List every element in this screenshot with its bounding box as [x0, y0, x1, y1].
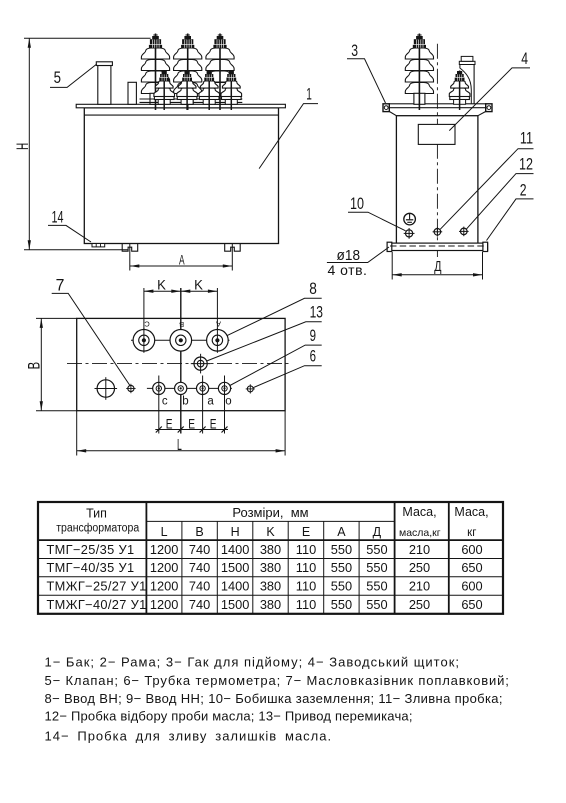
- drain plug (item 14): [92, 244, 105, 247]
- leader 8: [227, 298, 322, 335]
- tank top weld seam: [84, 114, 278, 116]
- dimension A extension lines: [129, 243, 131, 271]
- valve cap: [96, 62, 112, 66]
- svg-text:1400: 1400: [221, 542, 249, 557]
- svg-text:1500: 1500: [221, 597, 249, 612]
- dimension K line right: [181, 290, 218, 292]
- svg-text:5− Клапан; 6− Трубка термом: 5− Клапан; 6− Трубка термометра; 7− Масл…: [45, 673, 510, 688]
- tank (item 1 body): [84, 108, 278, 244]
- svg-text:650: 650: [461, 597, 482, 612]
- leader diameter note: [327, 247, 389, 263]
- svg-text:11: 11: [520, 128, 533, 147]
- dimension H extension line top: [24, 37, 151, 39]
- svg-text:8− Ввод ВН; 9− Ввод НН; 10: 8− Ввод ВН; 9− Ввод НН; 10− Бобишка зазе…: [45, 691, 503, 706]
- svg-text:14− Пробка для зливу залишків: 14− Пробка для зливу залишків масла.: [45, 729, 333, 744]
- svg-text:H: H: [231, 525, 240, 539]
- oil pipe flange: [459, 61, 475, 64]
- svg-text:10: 10: [350, 194, 364, 213]
- K extension line phase B (long): [180, 288, 182, 434]
- grounding earth symbol: [404, 213, 416, 225]
- leader 11: [440, 149, 533, 230]
- leader 14: [48, 225, 91, 242]
- svg-text:ТМЖГ−25/27 У1: ТМЖГ−25/27 У1: [47, 579, 147, 594]
- svg-text:550: 550: [331, 542, 352, 557]
- lid collar right slant: [478, 112, 486, 116]
- lid (side): [389, 104, 485, 108]
- factory plate (item 4): [418, 124, 455, 144]
- svg-text:550: 550: [331, 560, 352, 575]
- leader 5: [50, 64, 97, 87]
- dimension B line: [40, 318, 42, 410]
- svg-text:550: 550: [366, 560, 387, 575]
- svg-text:110: 110: [296, 560, 316, 575]
- svg-text:А: А: [216, 320, 221, 329]
- svg-text:600: 600: [461, 579, 482, 594]
- tank side wall: [396, 116, 478, 244]
- centerline (dash-dot): [67, 363, 291, 365]
- table outer border: [38, 502, 503, 614]
- HV bushing (side, item 8): [405, 34, 433, 111]
- frame hidden dashed line: [390, 245, 485, 247]
- svg-text:740: 740: [189, 579, 210, 594]
- dimension L line: [77, 450, 285, 452]
- LV circles crosshair horizontal: [147, 387, 232, 389]
- svg-text:B: B: [25, 362, 44, 370]
- leader 3: [347, 59, 386, 103]
- svg-text:Д: Д: [434, 258, 441, 275]
- leader 1: [259, 104, 318, 169]
- type column separator: [145, 502, 147, 614]
- svg-text:1200: 1200: [150, 542, 178, 557]
- dimension B extension lines: [36, 317, 77, 319]
- svg-text:250: 250: [409, 560, 430, 575]
- lifting hook left (item 3): [383, 104, 389, 112]
- LV bushing (side, item 9): [449, 71, 470, 111]
- svg-text:2: 2: [520, 181, 527, 200]
- svg-text:трансформатора: трансформатора: [56, 522, 140, 534]
- data row 4: [47, 597, 483, 612]
- svg-text:B: B: [195, 525, 203, 539]
- dimension L extension lines: [76, 411, 78, 456]
- svg-text:13: 13: [310, 303, 323, 322]
- svg-text:14: 14: [52, 207, 64, 226]
- E slash ticks: [156, 427, 162, 433]
- svg-text:А: А: [337, 525, 346, 539]
- dimension D line: [392, 274, 482, 276]
- lifting hook right: [486, 104, 492, 112]
- K extension line phase C: [143, 288, 145, 330]
- svg-text:380: 380: [260, 560, 281, 575]
- data row 2: [47, 560, 483, 575]
- svg-text:c: c: [162, 396, 168, 408]
- svg-text:масла,кг: масла,кг: [399, 527, 441, 539]
- leader 13: [207, 322, 322, 361]
- thermometer tube plan (item 6 target): [246, 384, 255, 393]
- svg-text:550: 550: [366, 579, 387, 594]
- svg-text:550: 550: [366, 542, 387, 557]
- centerline (dash-dot): [436, 44, 438, 257]
- leader 12: [466, 174, 533, 230]
- HV circles crosshair horizontal: [131, 339, 230, 341]
- data row 3: [47, 579, 483, 594]
- svg-text:кг: кг: [467, 527, 476, 539]
- right foot: [225, 244, 241, 252]
- svg-text:740: 740: [189, 597, 210, 612]
- svg-text:E: E: [302, 525, 310, 539]
- dimension H extension line bottom: [24, 249, 128, 251]
- dimension E line: [155, 429, 228, 431]
- LV bushing mounting bar: [140, 98, 243, 100]
- svg-text:E: E: [210, 416, 217, 431]
- svg-text:A: A: [179, 251, 185, 267]
- HV bushing phase A: [206, 34, 234, 111]
- svg-text:740: 740: [189, 542, 210, 557]
- drain plug (item 11): [433, 227, 443, 237]
- switch drive (item 13): [191, 354, 211, 374]
- svg-text:380: 380: [260, 579, 281, 594]
- oil pipe cap: [461, 56, 473, 61]
- lid collar left slant: [390, 112, 397, 116]
- svg-text:110: 110: [296, 579, 316, 594]
- LV circle c: [153, 376, 165, 434]
- svg-text:ТМЖГ−40/27 У1: ТМЖГ−40/27 У1: [47, 597, 147, 612]
- svg-text:b: b: [182, 396, 188, 408]
- LV circle o: [218, 376, 230, 434]
- svg-text:550: 550: [331, 579, 352, 594]
- leader 10: [348, 212, 406, 231]
- LV bushing 3: [199, 71, 220, 111]
- oil level gauge (item 7 area): [95, 377, 118, 400]
- frame right end cap: [483, 242, 488, 251]
- svg-text:K: K: [194, 277, 203, 292]
- svg-text:C: C: [144, 319, 150, 328]
- LV bushing 4: [221, 71, 242, 111]
- svg-text:110: 110: [296, 597, 316, 612]
- svg-text:В: В: [179, 320, 184, 329]
- dimension H line: [28, 38, 30, 250]
- leader 9: [230, 345, 322, 385]
- leader 6: [253, 366, 322, 388]
- svg-text:E: E: [166, 416, 173, 431]
- oil sampling plug (item 12): [459, 227, 469, 237]
- svg-text:E: E: [188, 416, 195, 431]
- oil pipe behind LV bushing: [460, 65, 471, 105]
- LV bushing 1 (item 9): [154, 71, 175, 111]
- thermometer tube (front): [128, 82, 136, 104]
- HV circle phase B: [170, 330, 192, 352]
- svg-text:Розміри, мм: Розміри, мм: [232, 505, 308, 520]
- svg-text:210: 210: [409, 579, 430, 594]
- svg-text:1200: 1200: [150, 579, 178, 594]
- svg-text:3: 3: [351, 41, 358, 60]
- left foot: [122, 244, 138, 252]
- svg-text:740: 740: [189, 560, 210, 575]
- leader 2: [487, 199, 534, 241]
- HV bushing phase B: [174, 34, 202, 111]
- dimension A line: [130, 265, 233, 267]
- svg-text:1400: 1400: [221, 579, 249, 594]
- svg-text:250: 250: [409, 597, 430, 612]
- valve (item 5) body: [98, 66, 111, 105]
- svg-text:K: K: [157, 277, 166, 292]
- svg-text:Маса,: Маса,: [454, 505, 488, 519]
- svg-text:110: 110: [296, 542, 316, 557]
- svg-text:a: a: [207, 396, 214, 408]
- svg-text:L: L: [161, 525, 168, 539]
- svg-text:9: 9: [310, 326, 316, 345]
- razmiry/masa separator: [394, 502, 396, 614]
- masa masla/masa kg separator: [448, 502, 450, 614]
- svg-text:380: 380: [260, 542, 281, 557]
- svg-text:o: o: [225, 396, 231, 408]
- svg-text:Тип: Тип: [86, 507, 107, 521]
- LV circle a: [197, 376, 209, 434]
- subheader column lines: [181, 521, 183, 613]
- svg-text:650: 650: [461, 560, 482, 575]
- data row 1: [47, 542, 483, 557]
- svg-text:ТМГ−25/35 У1: ТМГ−25/35 У1: [47, 542, 135, 557]
- dimension D extension lines: [391, 252, 393, 280]
- dimension K line left: [144, 290, 181, 292]
- svg-text:1200: 1200: [150, 560, 178, 575]
- leader 4: [449, 68, 530, 131]
- K extension line phase A: [216, 288, 218, 330]
- svg-text:6: 6: [310, 347, 316, 366]
- svg-text:4: 4: [521, 49, 528, 68]
- svg-text:1− Бак; 2− Рама; 3− Гак д: 1− Бак; 2− Рама; 3− Гак для підйому; 4− …: [45, 655, 461, 670]
- row lines: [38, 558, 503, 560]
- grounding boss bolt (item 10): [404, 228, 415, 239]
- svg-text:K: K: [266, 525, 275, 539]
- LV bushing 2: [177, 71, 198, 111]
- svg-text:ТМГ−40/35 У1: ТМГ−40/35 У1: [47, 560, 135, 575]
- svg-text:5: 5: [54, 68, 61, 87]
- float oil indicator bolt (item 7 target): [126, 384, 135, 393]
- svg-text:7: 7: [56, 276, 65, 295]
- svg-text:8: 8: [309, 279, 317, 298]
- frame left end cap: [387, 242, 392, 251]
- subheader top line: [146, 520, 394, 522]
- svg-text:600: 600: [461, 542, 482, 557]
- svg-text:550: 550: [331, 597, 352, 612]
- svg-text:380: 380: [260, 597, 281, 612]
- svg-text:Маса,: Маса,: [402, 505, 436, 519]
- tank outline (plan): [77, 318, 285, 410]
- svg-text:1500: 1500: [221, 560, 249, 575]
- header bottom line: [38, 539, 503, 541]
- HV circle phase A: [207, 328, 229, 353]
- frame (item 2) band: [387, 243, 488, 250]
- leader 7: [52, 293, 130, 385]
- svg-text:12− Пробка відбору проби масл: 12− Пробка відбору проби масла; 13− Прив…: [45, 708, 413, 723]
- HV bushing phase C (item 8): [141, 34, 169, 111]
- svg-text:4 отв.: 4 отв.: [328, 262, 368, 278]
- svg-text:1: 1: [306, 85, 312, 104]
- svg-text:12: 12: [519, 155, 533, 174]
- svg-text:Д: Д: [373, 525, 382, 539]
- svg-text:1200: 1200: [150, 597, 178, 612]
- svg-text:210: 210: [409, 542, 430, 557]
- svg-text:L: L: [177, 437, 182, 454]
- LV circle b: [175, 382, 187, 394]
- svg-text:H: H: [13, 143, 32, 150]
- svg-text:550: 550: [366, 597, 387, 612]
- HV circle phase C: [133, 328, 155, 353]
- lid: [76, 104, 285, 108]
